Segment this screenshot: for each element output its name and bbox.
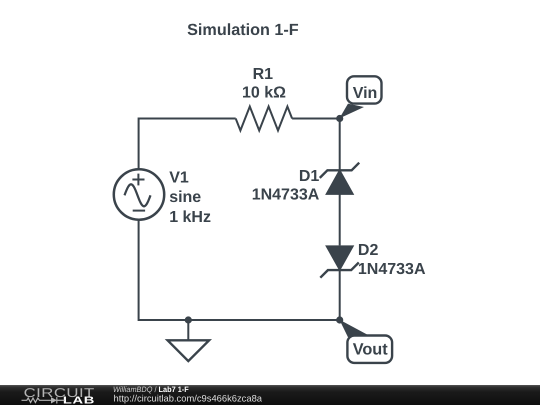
logo CircuitLab wordmark LAB [63,396,95,405]
logo CircuitLab wordmark CIRCUIT [24,386,95,400]
net label Vin (pointer + box + text) [339,76,381,118]
svg-text:1 kHz: 1 kHz [169,209,211,226]
svg-text:1N4733A: 1N4733A [252,186,320,203]
svg-text:LAB: LAB [63,396,95,405]
svg-text:1N4733A: 1N4733A [358,261,426,278]
logo resistor-diode squiggle [22,397,65,403]
svg-text:D2: D2 [358,242,379,259]
wire bottom (Vout node to left, up to V1 bottom) [139,220,340,320]
wire right branch upper (Vin node to D1 cathode) [339,119,341,171]
svg-text:10 kΩ: 10 kΩ [242,85,286,102]
svg-text:D1: D1 [299,168,320,185]
diode D2 zener (cathode down) [320,246,359,278]
node Vin junction [336,115,343,122]
svg-text:Simulation 1-F: Simulation 1-F [187,21,299,39]
net label Vout (pointer + box + text) [339,320,392,363]
node ground junction [185,316,192,323]
wire from V1 top to resistor left (top-left corner) [139,119,236,170]
resistor R1 [236,107,292,131]
svg-text:Vout: Vout [353,340,389,358]
svg-text:R1: R1 [253,66,274,83]
svg-text:http://circuitlab.com/c9s466k6: http://circuitlab.com/c9s466k6zca8a [114,392,263,403]
svg-text:Vin: Vin [353,85,378,102]
node Vout junction [336,316,343,323]
svg-text:sine: sine [169,189,201,206]
diode D1 zener (cathode up) [320,163,359,194]
voltage source V1 [114,169,164,219]
wire right branch lower (D2 cathode to Vout node) [339,270,341,320]
ground [168,320,210,361]
svg-text:V1: V1 [169,170,189,187]
wire resistor right to Vin node [292,118,340,120]
wire between D1 anode and D2 anode [339,194,341,245]
